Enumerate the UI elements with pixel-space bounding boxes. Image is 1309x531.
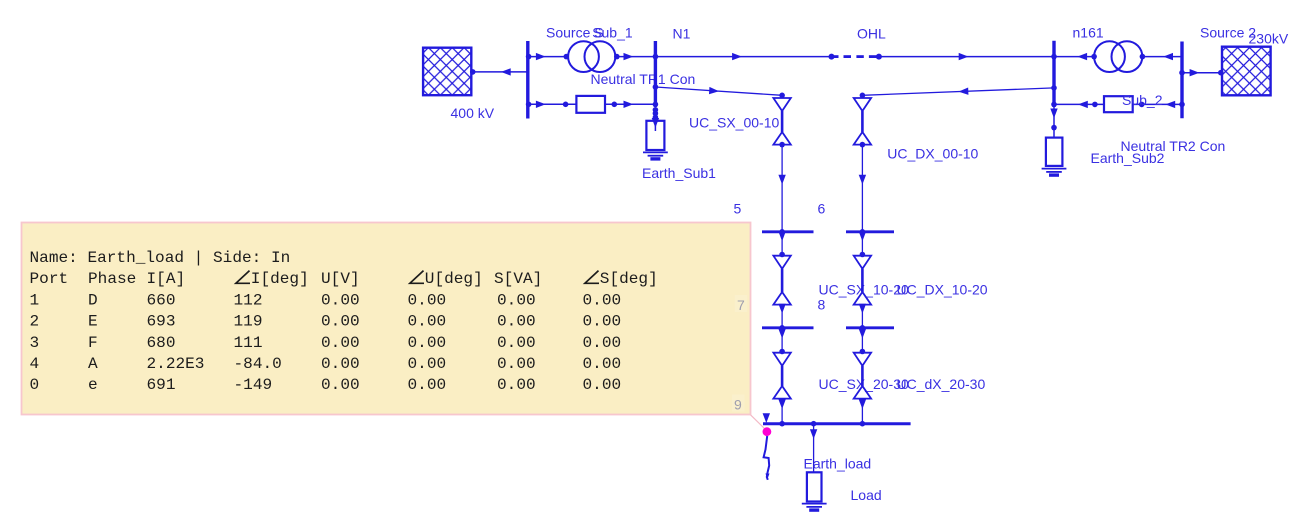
surge arrester Earth_Sub2 (1046, 107, 1063, 166)
svg-text:0.00: 0.00 (321, 334, 360, 352)
node bus 5 (UC_SX) (762, 229, 814, 235)
svg-text:U[V]: U[V] (321, 270, 360, 288)
svg-text:1: 1 (30, 291, 40, 309)
svg-text:111: 111 (234, 334, 263, 352)
svg-text:3: 3 (30, 334, 40, 352)
wire 230kV busbar to source square (1179, 69, 1223, 76)
svg-text:UC_DX_10-20: UC_DX_10-20 (897, 282, 988, 298)
svg-text:UC_dX_20-30: UC_dX_20-30 (897, 376, 986, 392)
svg-text:Port: Port (30, 270, 69, 288)
svg-text:693: 693 (147, 313, 176, 331)
svg-text:0.00: 0.00 (408, 355, 447, 373)
svg-text:Neutral TR2 Con: Neutral TR2 Con (1121, 138, 1226, 154)
cable section UC_SX_20-30 (773, 329, 790, 423)
svg-text:N1: N1 (673, 26, 691, 42)
svg-text:0.00: 0.00 (497, 334, 536, 352)
svg-text:0.00: 0.00 (497, 376, 536, 394)
wire bus n161 to transformer TR2 (1054, 53, 1097, 60)
svg-text:E: E (88, 313, 98, 331)
tooltip measurement box Earth_load (22, 223, 767, 431)
svg-text:0.00: 0.00 (408, 291, 447, 309)
svg-text:0.00: 0.00 (583, 334, 622, 352)
wire bus n161 to resistor Sub_2 (1054, 101, 1104, 108)
svg-text:UC_SX_00-10: UC_SX_00-10 (689, 115, 779, 131)
busbar 400 kV (526, 41, 529, 119)
svg-text:A: A (88, 355, 98, 373)
svg-text:0.00: 0.00 (497, 355, 536, 373)
svg-text:n161: n161 (1073, 25, 1104, 41)
svg-text:I[A]: I[A] (147, 270, 186, 288)
wire busbar to transformer TR1 (526, 53, 569, 60)
svg-text:S[deg]: S[deg] (600, 270, 658, 288)
wire neutral resistor to bus N1 (605, 101, 655, 108)
node dots on n161 (1051, 54, 1057, 107)
svg-text:4: 4 (30, 355, 40, 373)
source square 400 kV (423, 48, 471, 95)
svg-text:0.00: 0.00 (321, 291, 360, 309)
busbar 230 kV (1180, 42, 1183, 119)
svg-text:Earth_Sub1: Earth_Sub1 (642, 165, 716, 181)
wire load bus to Load (810, 425, 817, 472)
svg-text:691: 691 (147, 376, 176, 394)
svg-text:U[deg]: U[deg] (425, 270, 483, 288)
transformer TR2 (1094, 41, 1142, 72)
svg-text:Load: Load (851, 487, 882, 503)
wire OHL dashed middle segment (829, 54, 882, 60)
svg-text:0.00: 0.00 (321, 376, 360, 394)
svg-text:0.00: 0.00 (583, 313, 622, 331)
source square Source 2 (230kV) (1222, 47, 1271, 96)
svg-text:112: 112 (234, 291, 263, 309)
load resistor Load (807, 472, 822, 501)
svg-text:0.00: 0.00 (497, 291, 536, 309)
svg-text:0.00: 0.00 (583, 376, 622, 394)
svg-text:2: 2 (30, 313, 40, 331)
transformer TR1 (Source Sub_1) (568, 41, 615, 72)
svg-text:119: 119 (234, 313, 263, 331)
cable section UC_DX_00-10 (854, 93, 871, 231)
svg-text:UC_SX_20-30: UC_SX_20-30 (819, 376, 909, 392)
svg-text:Sub_1: Sub_1 (592, 25, 633, 41)
svg-text:UC_DX_00-10: UC_DX_00-10 (887, 146, 978, 162)
svg-text:S[VA]: S[VA] (494, 270, 542, 288)
wire OHL right solid segment (879, 53, 1054, 60)
cable section UC_dX_20-30 (854, 329, 871, 423)
surge arrester Earth_Sub1 (646, 117, 664, 150)
svg-text:230kV: 230kV (1249, 31, 1289, 47)
svg-text:I[deg]: I[deg] (251, 270, 309, 288)
svg-text:2.22E3: 2.22E3 (147, 355, 205, 373)
resistor neutral TR1 (576, 96, 605, 113)
node bus 7 (UC_SX) (762, 325, 814, 331)
busbar N1 (654, 41, 657, 107)
svg-text:Phase: Phase (88, 270, 136, 288)
cable section UC_DX_10-20 (854, 231, 871, 326)
svg-text:-84.0: -84.0 (234, 355, 282, 373)
svg-text:-149: -149 (234, 376, 273, 394)
node label 9 (dimmed under tooltip) (732, 395, 745, 413)
svg-text:Earth_load: Earth_load (804, 456, 872, 472)
svg-text:D: D (88, 291, 98, 309)
svg-text:e: e (88, 376, 98, 394)
svg-text:0: 0 (30, 376, 40, 394)
svg-text:0.00: 0.00 (583, 355, 622, 373)
wire n161 to UC_DX column (862, 88, 1054, 96)
probe point (magenta) (763, 427, 772, 436)
tooltip text (30, 249, 658, 394)
busbar n161 (1052, 41, 1055, 107)
resistor Sub_2 (1104, 96, 1133, 112)
wire transformer TR2 to 230kV busbar (1140, 53, 1182, 60)
svg-text:5: 5 (734, 201, 742, 217)
svg-text:OHL: OHL (857, 26, 886, 42)
node bus 9 (load bus) (763, 413, 911, 426)
probe squiggle (764, 436, 770, 480)
node dots on N1 (653, 54, 659, 120)
cable section UC_SX_00-10 (773, 93, 790, 231)
node bus 8 (UC_DX) (846, 325, 894, 331)
svg-text:0.00: 0.00 (408, 313, 447, 331)
ground Earth_Sub1 (643, 152, 668, 159)
svg-text:7: 7 (737, 297, 745, 313)
wire resistor Sub_2 to 230kV busbar (1133, 101, 1185, 108)
svg-text:0.00: 0.00 (408, 334, 447, 352)
svg-text:F: F (88, 334, 98, 352)
svg-text:9: 9 (734, 397, 742, 413)
wire source square to 400kV busbar (470, 68, 528, 75)
svg-text:400 kV: 400 kV (451, 105, 495, 121)
wire OHL left solid segment (655, 53, 831, 60)
ground Earth_Sub2 (1042, 169, 1067, 176)
node label 7 (dimmed under tooltip) (735, 295, 748, 313)
wire busbar to neutral resistor (526, 101, 577, 108)
svg-text:0.00: 0.00 (583, 291, 622, 309)
svg-text:Name: Earth_load | Side: In: Name: Earth_load | Side: In (30, 249, 291, 267)
svg-text:6: 6 (818, 201, 826, 217)
cable section UC_SX_10-20 (773, 231, 790, 326)
wire transformer TR1 to bus N1 (614, 53, 655, 60)
svg-text:0.00: 0.00 (321, 355, 360, 373)
node bus 6 (UC_DX) (846, 229, 894, 235)
ground Earth_load (802, 504, 827, 511)
svg-text:0.00: 0.00 (321, 313, 360, 331)
wire N1 to UC_SX column (655, 87, 782, 95)
svg-text:0.00: 0.00 (408, 376, 447, 394)
svg-text:Sub_2: Sub_2 (1122, 92, 1163, 108)
svg-text:680: 680 (147, 334, 176, 352)
svg-text:660: 660 (147, 291, 176, 309)
svg-text:8: 8 (818, 297, 826, 313)
svg-text:0.00: 0.00 (497, 313, 536, 331)
svg-text:Neutral TR1 Con: Neutral TR1 Con (591, 71, 696, 87)
